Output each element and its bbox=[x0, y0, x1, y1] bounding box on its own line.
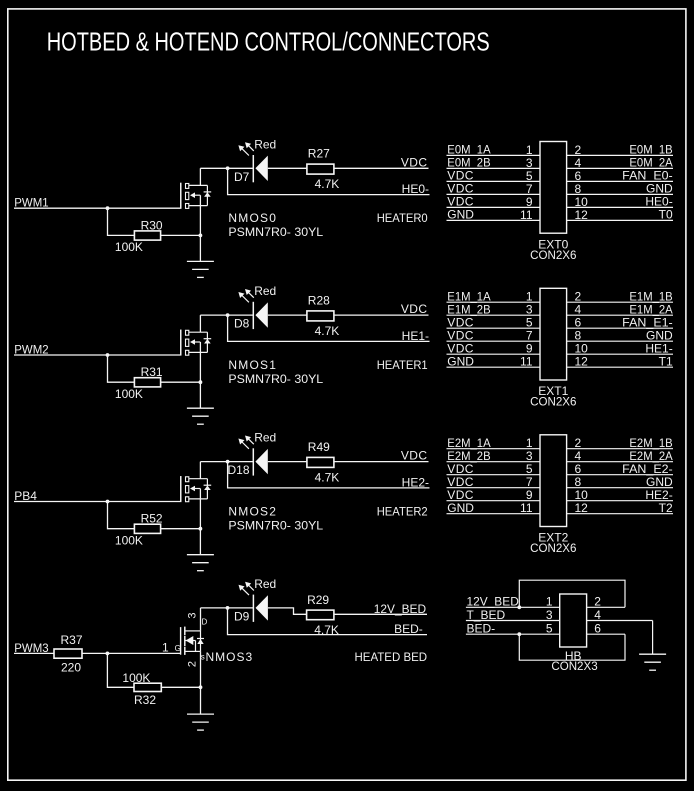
junction R32/source bbox=[199, 685, 203, 689]
wire PWM2 to gate bbox=[14, 330, 181, 355]
svg-text:PSMN7R0- 30YL: PSMN7R0- 30YL bbox=[228, 372, 323, 386]
wire 12V_BED bbox=[334, 613, 427, 615]
svg-text:T2: T2 bbox=[659, 501, 673, 515]
transistor NMOS2 PSMN7R0-30YL bbox=[181, 476, 324, 532]
pin 8 GND of EXT1 bbox=[567, 329, 673, 343]
pin 5 BED- of HB bbox=[466, 622, 560, 636]
wire drain of NMOS0 bbox=[200, 168, 253, 185]
svg-text:8: 8 bbox=[575, 475, 582, 489]
pin 1 E2M_1A of EXT2 bbox=[447, 436, 541, 450]
pin 8 GND of EXT2 bbox=[567, 475, 673, 489]
wire source of NMOS2 bbox=[199, 489, 201, 555]
svg-text:3: 3 bbox=[526, 156, 533, 170]
junction drain/HE1 bbox=[226, 313, 230, 317]
svg-text:E2M_2B: E2M_2B bbox=[447, 449, 490, 463]
svg-text:3: 3 bbox=[526, 449, 533, 463]
svg-text:6: 6 bbox=[575, 462, 582, 476]
svg-text:10: 10 bbox=[575, 488, 589, 502]
pin 4 E0M_2A of EXT0 bbox=[567, 156, 673, 170]
svg-text:BED-: BED- bbox=[467, 622, 496, 636]
svg-text:3: 3 bbox=[546, 608, 553, 622]
wire R30 right to source bbox=[161, 234, 201, 236]
wire drain of NMOS3 bbox=[201, 608, 254, 631]
resistor R27 4.7K bbox=[307, 147, 339, 192]
svg-text:VDC: VDC bbox=[447, 462, 474, 476]
pin 6 FAN_E2- of EXT2 bbox=[567, 462, 673, 476]
svg-text:R27: R27 bbox=[308, 147, 330, 161]
svg-text:8: 8 bbox=[575, 329, 582, 343]
svg-text:E0M_2A: E0M_2A bbox=[629, 156, 672, 170]
connector EXT0 CON2X6 box bbox=[540, 142, 567, 234]
svg-text:4: 4 bbox=[594, 608, 601, 622]
svg-text:5: 5 bbox=[526, 316, 533, 330]
junction PWM2/R31 bbox=[106, 353, 110, 357]
svg-text:NMOS3: NMOS3 bbox=[206, 650, 254, 664]
LED D8 Red bbox=[234, 284, 276, 331]
svg-text:R52: R52 bbox=[141, 512, 163, 526]
svg-text:HEATER2: HEATER2 bbox=[377, 504, 428, 518]
svg-text:12V_BED: 12V_BED bbox=[467, 595, 520, 609]
svg-text:2: 2 bbox=[594, 595, 601, 609]
svg-text:D: D bbox=[202, 617, 208, 626]
connector EXT1 CON2X6 box bbox=[540, 288, 567, 380]
svg-text:4.7K: 4.7K bbox=[314, 623, 339, 637]
pin 2 of HB bbox=[587, 606, 625, 608]
svg-text:6: 6 bbox=[575, 169, 582, 183]
svg-text:PSMN7R0- 30YL: PSMN7R0- 30YL bbox=[228, 519, 323, 533]
pin 6 FAN_E1- of EXT1 bbox=[567, 316, 673, 330]
svg-text:CON2X6: CON2X6 bbox=[530, 395, 577, 409]
svg-text:12: 12 bbox=[575, 501, 589, 515]
svg-text:E1M_2B: E1M_2B bbox=[447, 303, 490, 317]
svg-text:D9: D9 bbox=[234, 610, 250, 624]
wire D18 to R49 bbox=[268, 461, 307, 463]
wire R52 right to source bbox=[161, 528, 201, 530]
svg-text:GND: GND bbox=[447, 355, 474, 369]
svg-text:9: 9 bbox=[526, 342, 533, 356]
junction PB4/R52 bbox=[106, 500, 110, 504]
pin 1 G of NMOS3 bbox=[162, 641, 181, 655]
wire HE2 bbox=[228, 462, 430, 488]
svg-text:CON2X6: CON2X6 bbox=[530, 248, 577, 262]
pin 9 VDC of EXT0 bbox=[447, 195, 541, 209]
wire D8 to R28 bbox=[268, 314, 307, 316]
svg-text:HEATER1: HEATER1 bbox=[377, 358, 428, 372]
svg-text:FAN_E2-: FAN_E2- bbox=[622, 462, 673, 476]
pin 7 VDC of EXT2 bbox=[447, 475, 541, 489]
svg-text:G: G bbox=[175, 644, 181, 653]
pin 11 GND of EXT0 bbox=[447, 208, 541, 222]
resistor R49 4.7K bbox=[307, 440, 339, 485]
svg-text:12: 12 bbox=[575, 355, 589, 369]
pin 1 E0M_1A of EXT0 bbox=[447, 143, 541, 157]
LED D9 Red bbox=[234, 577, 276, 623]
pin 6 of HB bbox=[587, 633, 625, 635]
svg-text:VDC: VDC bbox=[447, 342, 474, 356]
svg-text:10: 10 bbox=[575, 195, 589, 209]
junction drain/HE0 bbox=[226, 166, 230, 170]
pin 12 T0 of EXT0 bbox=[567, 208, 673, 222]
resistor R30 bbox=[115, 218, 163, 254]
svg-text:CON2X3: CON2X3 bbox=[551, 659, 598, 673]
pin 8 GND of EXT0 bbox=[567, 182, 673, 196]
wire source of NMOS3 bbox=[200, 651, 202, 714]
wire drain of NMOS2 bbox=[200, 462, 253, 479]
svg-text:1: 1 bbox=[526, 143, 533, 157]
wire HE0 bbox=[228, 168, 430, 194]
junction R31/source bbox=[199, 380, 203, 384]
svg-text:VDC: VDC bbox=[447, 488, 474, 502]
wire D9 to R29 bbox=[268, 608, 307, 614]
junction BED- loop bbox=[517, 632, 521, 636]
pin 2 E1M_1B of EXT1 bbox=[567, 290, 673, 304]
wire R30 left bbox=[108, 208, 135, 235]
junction R37/R32 bbox=[106, 652, 110, 656]
pin 1 12V_BED of HB bbox=[466, 595, 560, 609]
svg-text:VDC: VDC bbox=[401, 155, 428, 169]
wire R37 to gate bbox=[82, 652, 181, 654]
svg-text:12V_BED: 12V_BED bbox=[374, 602, 427, 616]
svg-text:HOTBED & HOTEND CONTROL/CONNEC: HOTBED & HOTEND CONTROL/CONNECTORS bbox=[47, 27, 490, 57]
svg-text:R49: R49 bbox=[308, 440, 330, 454]
svg-text:HE2-: HE2- bbox=[402, 475, 429, 489]
svg-text:VDC: VDC bbox=[401, 449, 428, 463]
svg-text:4: 4 bbox=[575, 449, 582, 463]
pin 10 HE0- of EXT0 bbox=[567, 195, 673, 209]
svg-text:1: 1 bbox=[546, 595, 553, 609]
wire BED- bbox=[228, 608, 428, 635]
svg-text:E0M_1B: E0M_1B bbox=[629, 143, 672, 157]
ground NMOS0 bbox=[187, 261, 214, 277]
wire source of NMOS1 bbox=[199, 342, 201, 408]
svg-text:VDC: VDC bbox=[447, 329, 474, 343]
pin 3 D of NMOS3 bbox=[187, 612, 208, 626]
pin numbers right of HB bbox=[594, 595, 601, 636]
svg-text:100K: 100K bbox=[115, 387, 143, 401]
pin 5 VDC of EXT0 bbox=[447, 169, 541, 183]
wire source of NMOS0 bbox=[199, 195, 201, 261]
svg-text:100K: 100K bbox=[115, 534, 143, 548]
pin 3 E0M_2B of EXT0 bbox=[447, 156, 541, 170]
wire PWM1 to gate bbox=[14, 183, 181, 208]
svg-text:Red: Red bbox=[254, 137, 276, 151]
pin 4 E2M_2A of EXT2 bbox=[567, 449, 673, 463]
svg-text:Red: Red bbox=[254, 284, 276, 298]
svg-text:3: 3 bbox=[187, 612, 199, 618]
junction drain/BED- bbox=[226, 606, 230, 610]
svg-text:CON2X6: CON2X6 bbox=[530, 541, 577, 555]
svg-text:HEATER0: HEATER0 bbox=[377, 211, 428, 225]
svg-text:VDC: VDC bbox=[447, 475, 474, 489]
svg-text:R31: R31 bbox=[141, 365, 163, 379]
svg-text:220: 220 bbox=[61, 660, 81, 674]
svg-text:NMOS2: NMOS2 bbox=[228, 504, 277, 518]
svg-text:7: 7 bbox=[526, 475, 533, 489]
svg-text:VDC: VDC bbox=[401, 302, 428, 316]
svg-text:T1: T1 bbox=[659, 355, 673, 369]
pin 4 E1M_2A of EXT1 bbox=[567, 303, 673, 317]
svg-text:100K: 100K bbox=[122, 671, 150, 685]
pin 2 E0M_1B of EXT0 bbox=[567, 143, 673, 157]
svg-text:3: 3 bbox=[526, 303, 533, 317]
wire drain of NMOS1 bbox=[200, 315, 253, 332]
pin 5 VDC of EXT2 bbox=[447, 462, 541, 476]
junction 12V_BED loop bbox=[517, 605, 521, 609]
wire D7 to R27 bbox=[268, 167, 307, 169]
svg-text:9: 9 bbox=[526, 488, 533, 502]
pin 10 HE1- of EXT1 bbox=[567, 342, 673, 356]
svg-text:T_BED: T_BED bbox=[467, 608, 506, 622]
svg-text:s: s bbox=[201, 653, 205, 662]
pin 5 VDC of EXT1 bbox=[447, 316, 541, 330]
LED D18 Red bbox=[228, 431, 277, 478]
connector EXT2 CON2X6 box bbox=[540, 435, 567, 527]
svg-text:R32: R32 bbox=[134, 693, 156, 707]
svg-text:GND: GND bbox=[646, 475, 673, 489]
svg-text:E1M_1B: E1M_1B bbox=[629, 290, 672, 304]
svg-text:1: 1 bbox=[526, 290, 533, 304]
pin 7 VDC of EXT0 bbox=[447, 182, 541, 196]
resistor R37 220 bbox=[54, 633, 83, 674]
connector HB CON2X3 box bbox=[560, 594, 587, 647]
pin 10 HE2- of EXT2 bbox=[567, 488, 673, 502]
pin 12 T1 of EXT1 bbox=[567, 355, 673, 369]
svg-text:R30: R30 bbox=[141, 218, 163, 232]
svg-text:HEATED BED: HEATED BED bbox=[355, 650, 428, 664]
svg-text:D7: D7 bbox=[234, 170, 250, 184]
svg-text:FAN_E0-: FAN_E0- bbox=[622, 169, 673, 183]
wire PWM3 to R37 bbox=[14, 652, 54, 654]
ground NMOS2 bbox=[187, 555, 214, 571]
svg-text:HE1-: HE1- bbox=[402, 329, 429, 343]
svg-text:E2M_2A: E2M_2A bbox=[629, 449, 672, 463]
svg-text:2: 2 bbox=[575, 143, 582, 157]
svg-text:R28: R28 bbox=[308, 293, 330, 307]
svg-text:PSMN7R0- 30YL: PSMN7R0- 30YL bbox=[228, 225, 323, 239]
ground NMOS3 bbox=[187, 714, 214, 730]
svg-text:VDC: VDC bbox=[447, 169, 474, 183]
svg-text:6: 6 bbox=[594, 622, 601, 636]
svg-text:2: 2 bbox=[575, 436, 582, 450]
wire R31 right to source bbox=[161, 381, 201, 383]
svg-text:5: 5 bbox=[526, 169, 533, 183]
junction R30/source bbox=[199, 234, 203, 238]
wire loop pin5 to pin6 bbox=[519, 634, 625, 660]
wire R31 left bbox=[108, 355, 135, 382]
svg-text:T0: T0 bbox=[659, 208, 673, 222]
wire VDC bbox=[334, 314, 429, 316]
svg-text:E0M_1A: E0M_1A bbox=[447, 143, 490, 157]
ground HB pin4 bbox=[639, 654, 666, 670]
svg-text:4.7K: 4.7K bbox=[315, 470, 340, 484]
ground NMOS1 bbox=[187, 408, 214, 424]
wire loop pin1 to pin2 bbox=[519, 580, 625, 607]
transistor NMOS3 bbox=[181, 627, 204, 655]
pin 2 S of NMOS3 bbox=[187, 653, 205, 667]
pin 3 T_BED of HB bbox=[466, 608, 560, 622]
svg-text:GND: GND bbox=[447, 208, 474, 222]
pin 3 E1M_2B of EXT1 bbox=[447, 303, 541, 317]
wire PB4 to gate bbox=[14, 476, 181, 501]
svg-text:4: 4 bbox=[575, 156, 582, 170]
svg-text:NMOS1: NMOS1 bbox=[228, 358, 277, 372]
svg-text:5: 5 bbox=[546, 622, 553, 636]
pin 11 GND of EXT2 bbox=[447, 501, 541, 515]
pin 6 FAN_E0- of EXT0 bbox=[567, 169, 673, 183]
junction drain/HE2 bbox=[226, 460, 230, 464]
resistor R29 4.7K bbox=[307, 593, 339, 637]
transistor NMOS0 PSMN7R0-30YL bbox=[181, 183, 324, 239]
svg-text:5: 5 bbox=[526, 462, 533, 476]
svg-text:11: 11 bbox=[520, 501, 533, 515]
junction R52/source bbox=[199, 527, 203, 531]
svg-text:GND: GND bbox=[646, 329, 673, 343]
svg-text:BED-: BED- bbox=[394, 622, 423, 636]
wire pin4 to ground bbox=[652, 621, 654, 655]
wire R52 left bbox=[108, 502, 135, 529]
svg-text:2: 2 bbox=[187, 661, 199, 667]
svg-text:R37: R37 bbox=[61, 633, 83, 647]
svg-text:FAN_E1-: FAN_E1- bbox=[622, 316, 673, 330]
svg-text:11: 11 bbox=[520, 355, 533, 369]
svg-text:VDC: VDC bbox=[447, 195, 474, 209]
svg-text:E1M_2A: E1M_2A bbox=[629, 303, 672, 317]
wire R32 left bbox=[107, 653, 134, 687]
svg-text:4: 4 bbox=[575, 303, 582, 317]
svg-text:7: 7 bbox=[526, 329, 533, 343]
svg-text:E0M_2B: E0M_2B bbox=[447, 156, 490, 170]
svg-text:7: 7 bbox=[526, 182, 533, 196]
svg-text:1: 1 bbox=[162, 641, 169, 655]
pin 7 VDC of EXT1 bbox=[447, 329, 541, 343]
svg-text:6: 6 bbox=[575, 316, 582, 330]
wire VDC bbox=[334, 167, 429, 169]
pin 9 VDC of EXT1 bbox=[447, 342, 541, 356]
svg-text:E1M_1A: E1M_1A bbox=[447, 290, 490, 304]
svg-text:11: 11 bbox=[520, 208, 533, 222]
resistor R32 100K bbox=[122, 671, 161, 707]
svg-text:HE0-: HE0- bbox=[645, 195, 672, 209]
pin 12 T2 of EXT2 bbox=[567, 501, 673, 515]
svg-text:Red: Red bbox=[254, 431, 276, 445]
wire VDC bbox=[334, 461, 429, 463]
pin 9 VDC of EXT2 bbox=[447, 488, 541, 502]
svg-text:HE0-: HE0- bbox=[402, 182, 429, 196]
svg-text:1: 1 bbox=[526, 436, 533, 450]
svg-text:2: 2 bbox=[575, 290, 582, 304]
svg-text:E2M_1A: E2M_1A bbox=[447, 436, 490, 450]
wire HE1 bbox=[228, 315, 430, 341]
svg-text:D18: D18 bbox=[228, 463, 250, 477]
pin 4 of HB bbox=[587, 620, 653, 622]
svg-text:HE1-: HE1- bbox=[645, 342, 672, 356]
svg-text:100K: 100K bbox=[115, 240, 143, 254]
svg-text:E2M_1B: E2M_1B bbox=[629, 436, 672, 450]
pin 2 E2M_1B of EXT2 bbox=[567, 436, 673, 450]
transistor NMOS1 PSMN7R0-30YL bbox=[181, 330, 324, 386]
pin 11 GND of EXT1 bbox=[447, 355, 541, 369]
resistor R31 bbox=[115, 365, 163, 401]
svg-text:8: 8 bbox=[575, 182, 582, 196]
svg-text:12: 12 bbox=[575, 208, 589, 222]
wire R32 right to source bbox=[161, 686, 200, 688]
LED D7 Red bbox=[234, 137, 276, 184]
resistor R52 bbox=[115, 512, 163, 548]
svg-text:4.7K: 4.7K bbox=[315, 177, 340, 191]
svg-text:D8: D8 bbox=[234, 317, 250, 331]
svg-text:GND: GND bbox=[447, 501, 474, 515]
junction PWM1/R30 bbox=[106, 206, 110, 210]
svg-text:GND: GND bbox=[646, 182, 673, 196]
svg-text:10: 10 bbox=[575, 342, 589, 356]
svg-text:VDC: VDC bbox=[447, 182, 474, 196]
svg-text:Red: Red bbox=[254, 577, 276, 591]
svg-text:VDC: VDC bbox=[447, 316, 474, 330]
svg-text:HE2-: HE2- bbox=[645, 488, 672, 502]
svg-text:9: 9 bbox=[526, 195, 533, 209]
svg-text:R29: R29 bbox=[307, 593, 329, 607]
pin 1 E1M_1A of EXT1 bbox=[447, 290, 541, 304]
svg-text:NMOS0: NMOS0 bbox=[228, 211, 277, 225]
svg-text:4.7K: 4.7K bbox=[315, 324, 340, 338]
resistor R28 4.7K bbox=[307, 293, 339, 338]
pin 3 E2M_2B of EXT2 bbox=[447, 449, 541, 463]
